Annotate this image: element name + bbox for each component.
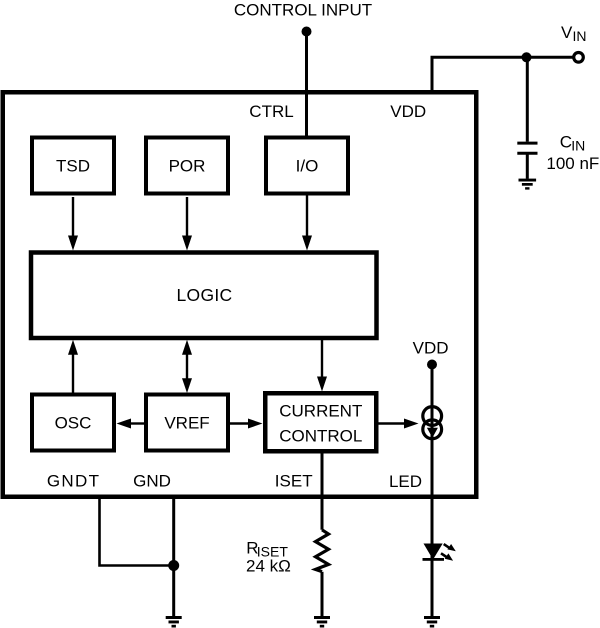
svg-text:VDD: VDD <box>413 339 449 358</box>
svg-text:C: C <box>560 133 572 152</box>
svg-text:LED: LED <box>389 472 422 491</box>
svg-text:POR: POR <box>169 157 206 176</box>
svg-text:I/O: I/O <box>296 157 319 176</box>
svg-text:24 kΩ: 24 kΩ <box>246 557 291 576</box>
svg-text:CURRENT: CURRENT <box>279 402 362 421</box>
svg-text:IN: IN <box>573 28 587 44</box>
svg-text:IN: IN <box>571 138 585 154</box>
svg-text:V: V <box>561 23 573 42</box>
svg-text:CTRL: CTRL <box>249 102 293 121</box>
svg-text:ISET: ISET <box>275 472 313 491</box>
svg-text:GND: GND <box>133 472 171 491</box>
svg-text:VDD: VDD <box>390 102 426 121</box>
svg-text:100 nF: 100 nF <box>546 154 599 173</box>
svg-text:OSC: OSC <box>55 414 92 433</box>
svg-text:GNDT: GNDT <box>47 472 100 491</box>
svg-text:LOGIC: LOGIC <box>177 285 233 305</box>
svg-text:CONTROL INPUT: CONTROL INPUT <box>234 1 372 20</box>
svg-text:TSD: TSD <box>56 157 90 176</box>
svg-text:VREF: VREF <box>164 414 209 433</box>
svg-text:CONTROL: CONTROL <box>279 427 362 446</box>
